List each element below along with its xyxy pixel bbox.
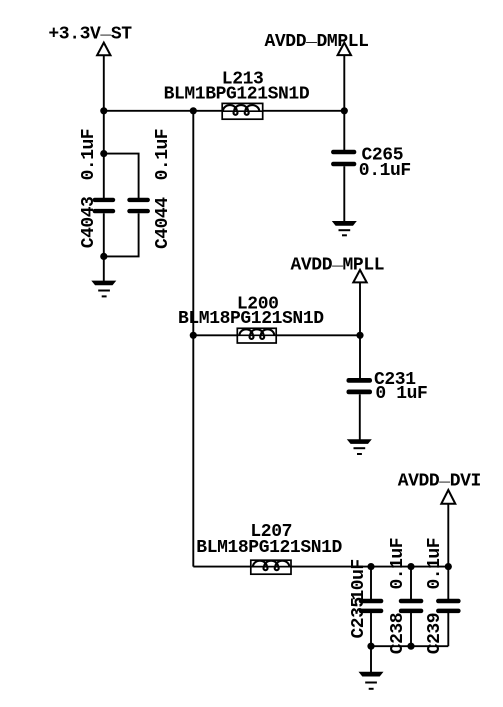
- junction at main vertical / mid bus: [190, 332, 197, 339]
- junction at C238 / bottom bus: [407, 563, 414, 570]
- wire C238 leg bottom: [410, 613, 412, 646]
- wire C239 leg top: [447, 567, 449, 599]
- wire AVDD_DMPLL drop: [343, 55, 345, 150]
- svg-text:C239: C239: [425, 613, 445, 654]
- wire bottom return bus: [371, 645, 448, 647]
- capacitor C238: [388, 538, 423, 654]
- svg-text:0.1uF: 0.1uF: [425, 538, 445, 590]
- capacitor C235: [349, 559, 383, 638]
- inductor L207: [196, 522, 342, 574]
- svg-text:BLM18PG121SN1D: BLM18PG121SN1D: [178, 309, 324, 329]
- svg-text:BLM18PG121SN1D: BLM18PG121SN1D: [196, 538, 342, 558]
- ground below C231: [347, 439, 372, 454]
- wire left rail vertical (+3.3V_ST to C4043 top): [103, 55, 105, 198]
- svg-text:0.1uF: 0.1uF: [153, 129, 173, 181]
- capacitor C4044: [127, 129, 173, 249]
- wire C4044 bottom branch: [104, 213, 139, 256]
- svg-text:C4044: C4044: [153, 197, 173, 249]
- svg-text:10uF: 10uF: [349, 559, 369, 600]
- wire C265 bottom to ground: [343, 166, 345, 221]
- svg-text:0.1uF: 0.1uF: [79, 129, 99, 181]
- inductor L213: [164, 70, 310, 120]
- capacitor C265: [331, 146, 411, 181]
- svg-text:0 1uF: 0 1uF: [375, 384, 427, 404]
- junction at C238 / return bus: [407, 643, 414, 650]
- junction at AVDD_DVI / bottom bus: [445, 563, 452, 570]
- wire AVDD_DVI drop: [447, 504, 449, 567]
- junction at AVDD_MPLL / mid bus: [356, 332, 363, 339]
- junction at C4044 bottom branch: [100, 253, 107, 260]
- ground below C265: [332, 221, 357, 235]
- capacitor C4043: [79, 129, 115, 248]
- junction at AVDD_DMPLL / top bus: [341, 107, 348, 114]
- wire C238 leg top: [410, 567, 412, 599]
- wire C4044 top branch: [104, 154, 139, 198]
- ground below C235: [359, 672, 384, 689]
- junction at C235 / bottom bus: [367, 563, 374, 570]
- wire C231 bottom to ground: [359, 394, 361, 439]
- wire left rail vertical (C4043 bottom to ground): [103, 213, 105, 281]
- junction at C235 / return bus: [367, 643, 374, 650]
- svg-text:C238: C238: [388, 613, 408, 654]
- power symbol AVDD_DVI: [398, 466, 481, 503]
- power symbol +3.3V_ST: [48, 20, 132, 56]
- wire mid bus horizontal: [193, 334, 360, 336]
- svg-text:0.1uF: 0.1uF: [359, 161, 411, 181]
- capacitor C239: [425, 538, 461, 654]
- capacitor C231: [347, 370, 428, 404]
- wire AVDD_MPLL drop: [359, 282, 361, 378]
- ground below C4043: [91, 281, 116, 297]
- svg-text:BLM1BPG121SN1D: BLM1BPG121SN1D: [164, 84, 310, 104]
- svg-text:C4043: C4043: [79, 197, 99, 249]
- power symbol AVDD_MPLL: [291, 251, 385, 283]
- svg-text:0.1uF: 0.1uF: [388, 538, 408, 590]
- wire C235 leg top: [370, 567, 372, 599]
- svg-text:C235: C235: [349, 597, 369, 638]
- wire bottom bus horizontal: [193, 566, 448, 568]
- junction at C4044 top branch: [100, 150, 107, 157]
- wire C239 leg bottom: [447, 613, 449, 646]
- inductor L200: [178, 295, 324, 343]
- wire main vertical bus: [192, 111, 194, 567]
- wire C235 leg bottom to ground: [370, 613, 372, 672]
- wire top bus horizontal: [104, 110, 344, 112]
- junction at main vertical / top bus: [190, 107, 197, 114]
- power symbol AVDD_DMPLL: [265, 27, 369, 55]
- junction at +3.3V rail / top bus: [100, 107, 107, 114]
